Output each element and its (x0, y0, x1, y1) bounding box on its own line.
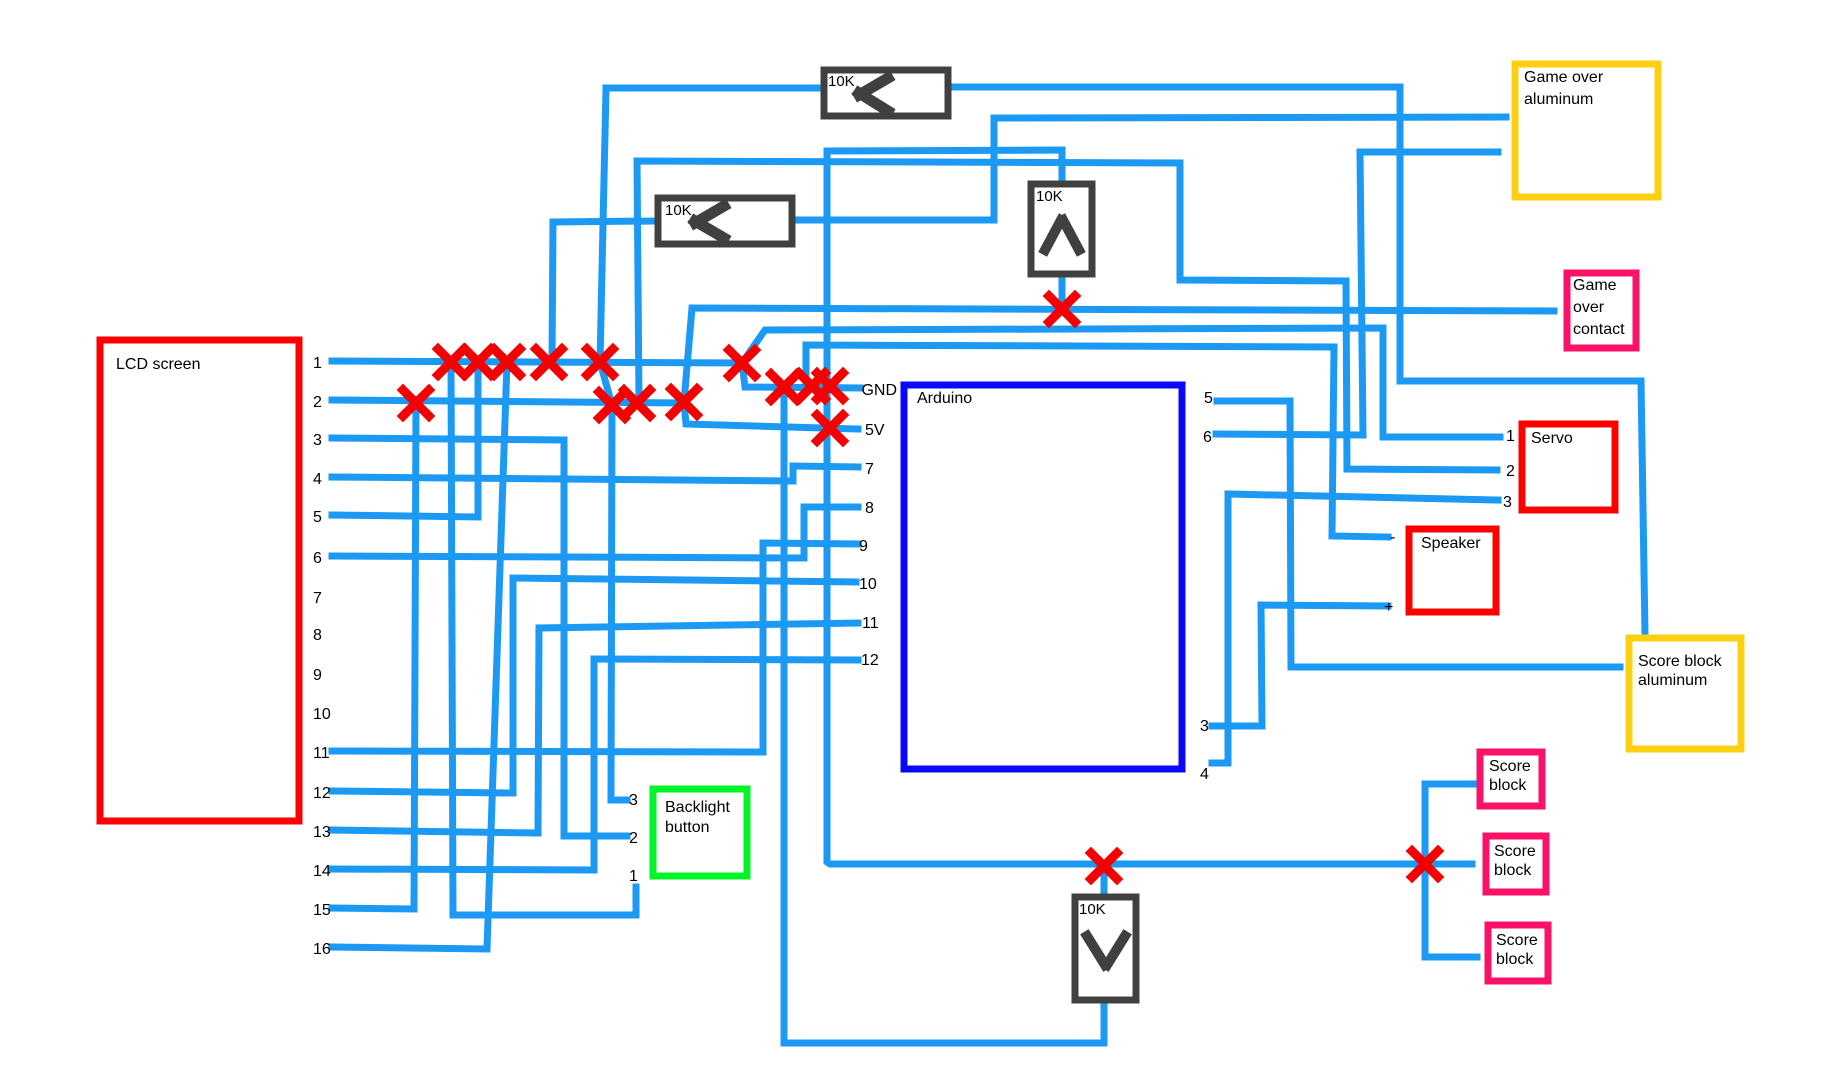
wire: pin1 row junction down to Backlight button pin 1 (451, 362, 636, 915)
wire: GND junction up and over to Speaker minus (806, 345, 1388, 537)
svg-text:Score: Score (1496, 932, 1538, 949)
Score block aluminum box (1629, 638, 1741, 749)
svg-text:Arduino: Arduino (917, 390, 972, 407)
wire: pin2 row junction down to Arduino 5V (684, 403, 858, 429)
junction X on pin2 row at 416 (403, 390, 429, 416)
wire: LCD pin 11 to Arduino 9 (332, 543, 858, 752)
wire: 10K button2 left pin horizontal (553, 221, 655, 222)
svg-text:12: 12 (861, 652, 879, 669)
wire: LCD pin 2 row (332, 400, 684, 403)
svg-text:3: 3 (1200, 718, 1209, 735)
wire: 10K button1 left pin chain down through pin1 and pin2 rows to Backlight button pin 3 (600, 88, 627, 800)
wire: branch to Score block 3 (1425, 954, 1477, 961)
Score block 2 box (1486, 836, 1546, 892)
wire: Arduino 3 to Speaker plus (1212, 605, 1388, 726)
svg-text:14: 14 (313, 863, 331, 880)
svg-text:+: + (1384, 599, 1393, 616)
svg-text:contact: contact (1573, 321, 1625, 338)
wire: 10K button1 right pin to Score block aluminum top (951, 87, 1645, 635)
10K button 2 chevron (695, 206, 724, 223)
wire: 10K button3 bottom pin stub (1059, 277, 1066, 309)
svg-text:6: 6 (313, 550, 322, 567)
wire: 10K button4 top pin stub (1101, 866, 1108, 895)
wire: GND junction down to 10K button4 bottom pin (784, 387, 1104, 1043)
junction X on GND wire at 830 (817, 373, 843, 399)
svg-text:3: 3 (629, 792, 638, 809)
junction X on Score block branch (1412, 851, 1438, 877)
wire: LCD pin 12 to Arduino 10 (332, 578, 856, 793)
svg-text:16: 16 (313, 941, 331, 958)
svg-text:10K: 10K (665, 202, 692, 219)
svg-text:Score: Score (1494, 843, 1536, 860)
svg-text:10K: 10K (1079, 901, 1106, 918)
wire: pin1 row junction to GND stub (742, 363, 860, 388)
wire: LCD pin 15 up to pin2 row junction (332, 403, 416, 909)
junction X on pin2 row at 612 (599, 392, 625, 418)
svg-text:-: - (1390, 529, 1395, 546)
wire: LCD pin 14 to Arduino 12 (332, 659, 858, 870)
svg-text:5: 5 (1204, 390, 1213, 407)
Backlight button box (653, 789, 747, 876)
junction X on below 10K button3 (1049, 296, 1075, 322)
junction X on GND wire at 812 (799, 373, 825, 399)
svg-text:LCD screen: LCD screen (116, 356, 200, 373)
svg-text:5: 5 (313, 509, 322, 526)
svg-text:5V: 5V (865, 422, 885, 439)
Arduino box (904, 385, 1182, 769)
svg-text:Score: Score (1489, 758, 1531, 775)
wire: Score block branch vertical (1422, 784, 1429, 957)
svg-text:13: 13 (313, 824, 331, 841)
svg-text:4: 4 (1200, 766, 1209, 783)
svg-text:Speaker: Speaker (1421, 535, 1481, 552)
wire: pin2 row junction to Game over contact (684, 308, 1554, 402)
svg-text:2: 2 (313, 394, 322, 411)
svg-text:12: 12 (313, 785, 331, 802)
wire: pin2 row junction to Servo 2 (637, 161, 1497, 470)
wire: Arduino 4 to Servo 3 (1212, 494, 1498, 763)
wire: LCD pin 13 to Arduino 11 (332, 623, 858, 833)
svg-text:9: 9 (859, 538, 868, 555)
wire: Arduino 6 to Game over aluminum (1216, 152, 1498, 435)
junction X on pin1 row at 552 (536, 349, 562, 375)
svg-text:block: block (1496, 951, 1534, 968)
junction X on pin1 row at 742 (729, 350, 755, 376)
svg-text:6: 6 (1203, 429, 1212, 446)
svg-text:10K: 10K (828, 73, 855, 90)
svg-text:8: 8 (865, 500, 874, 517)
10K button 4 chevron (1087, 936, 1105, 965)
junction X on GND wire at 784 (771, 374, 797, 400)
junction X on pin1 row at 451 (438, 349, 464, 375)
Game over aluminum box (1515, 64, 1658, 197)
junction X on pin1 row at 478 (465, 349, 491, 375)
junction X on pin1 row at 600 (587, 349, 613, 375)
svg-text:1: 1 (1506, 428, 1515, 445)
wire: LCD pin 4 to Arduino 7 (332, 466, 858, 481)
10K button 3 (up arrow) box (1031, 184, 1092, 274)
svg-text:8: 8 (313, 627, 322, 644)
svg-text:1: 1 (629, 868, 638, 885)
wire: LCD pin 5 up to pin1 row junction (332, 362, 478, 517)
svg-text:Servo: Servo (1531, 430, 1573, 447)
svg-text:Game over: Game over (1524, 69, 1604, 86)
svg-text:7: 7 (865, 461, 874, 478)
wire: Arduino 5 to Score block aluminum left (1217, 401, 1620, 667)
junction X on pin2 row at 684 (671, 389, 697, 415)
svg-text:GND: GND (861, 382, 897, 399)
LCD screen box (100, 340, 299, 821)
wire: LCD pin 3 to Backlight button pin 2 (332, 438, 627, 836)
svg-text:10: 10 (313, 706, 331, 723)
svg-text:3: 3 (313, 432, 322, 449)
svg-text:Backlight: Backlight (665, 799, 730, 816)
svg-text:4: 4 (313, 471, 322, 488)
10K button 2 (left arrow) box (658, 198, 792, 244)
wire: 10K button2 left pin down to pin1 row junction (552, 222, 553, 362)
10K button 1 chevron (859, 78, 888, 95)
svg-text:11: 11 (313, 745, 330, 762)
svg-text:15: 15 (313, 902, 331, 919)
wire: LCD pin 16 up to pin1 row junction (332, 362, 507, 949)
Speaker box (1409, 529, 1496, 612)
svg-text:3: 3 (1503, 494, 1512, 511)
wire: pin1 row junction to Servo 1 (742, 328, 1500, 437)
svg-text:block: block (1494, 862, 1532, 879)
svg-text:1: 1 (313, 355, 322, 372)
wire: 10K button3 top pin to 5V rail down to Score blocks (827, 150, 1472, 864)
10K button 4 (down arrow) box (1075, 897, 1136, 1000)
svg-text:2: 2 (1506, 463, 1515, 480)
Score block 1 box (1480, 752, 1542, 806)
svg-text:Score block: Score block (1638, 653, 1723, 670)
junction X on pin1 row at 507 (494, 349, 520, 375)
10K button 1 (left arrow) box (824, 70, 948, 116)
Servo box (1522, 424, 1615, 510)
svg-text:block: block (1489, 777, 1527, 794)
wire: LCD pin 6 to Arduino 8 (332, 507, 858, 558)
junction X on 5V wire at 830 (817, 415, 843, 441)
Score block 3 box (1488, 925, 1548, 981)
svg-text:7: 7 (313, 590, 322, 607)
junction X on pin2 row at 637 (624, 390, 650, 416)
svg-text:2: 2 (629, 830, 638, 847)
wire: 10K button2 right pin to Game over aluminum (795, 117, 1506, 220)
svg-text:Game: Game (1573, 277, 1617, 294)
svg-text:aluminum: aluminum (1524, 91, 1593, 108)
svg-text:button: button (665, 819, 709, 836)
wire: 10K button1 left pin horizontal (606, 85, 821, 92)
svg-text:9: 9 (313, 667, 322, 684)
svg-text:10: 10 (859, 576, 877, 593)
10K button 3 chevron (1045, 220, 1061, 250)
Game over contact box (1567, 273, 1636, 348)
svg-text:11: 11 (862, 615, 879, 632)
wire: branch to Score block 1 (1425, 781, 1477, 788)
junction X on above 10K button4 (1091, 853, 1117, 879)
svg-text:aluminum: aluminum (1638, 672, 1707, 689)
wire: LCD pin 1 row (332, 361, 742, 363)
svg-text:over: over (1573, 299, 1605, 316)
svg-text:10K: 10K (1036, 188, 1063, 205)
